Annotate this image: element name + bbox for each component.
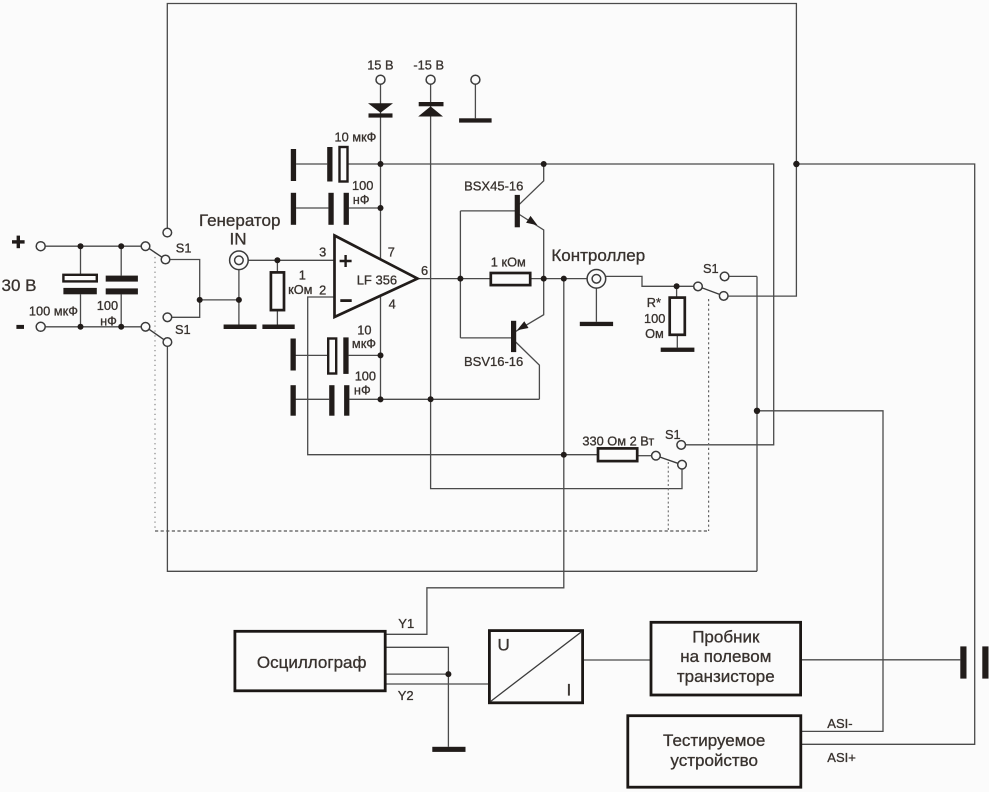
terminal + input [36,242,45,251]
transistor Q2 emitter arrow [517,321,529,330]
gang dashed horizontal [155,530,709,532]
capacitor C2 100nF plates [106,276,138,282]
wire branch from node at (796,164) to right edge down to ASI+ [796,164,974,744]
svg-text:S1: S1 [703,261,719,276]
wire lower S1 top throw to junction [172,300,200,317]
capacitor C4 100nF plates [328,193,333,225]
wire top supply rail y164 [348,164,774,445]
U/I diagonal [491,632,582,702]
wire resistor R1 top and bottom leads [276,260,278,324]
wire +15V vertical through pin 7 [380,84,382,259]
wire op-amp pin 4 vertical [380,296,382,400]
svg-text:S1: S1 [665,427,681,442]
op-amp minus symbol [340,299,351,302]
wire BSX45 emitter [519,215,543,279]
svg-text:Контроллер: Контроллер [551,246,645,265]
wire IN connector vertical to ground [238,270,240,325]
gang dotted line left S1 pair [154,252,156,531]
box Осциллограф [235,631,385,691]
wire junction to IN vertical [200,299,239,301]
resistor R4 330 Ом 2 Вт [598,448,637,461]
svg-text:нФ: нФ [353,192,370,207]
svg-text:100: 100 [97,298,118,313]
wire IN connector to op-amp pin 3 [248,259,334,261]
transistor Q1 BSX45-16 base bar [515,195,520,227]
svg-text:BSV16-16: BSV16-16 [464,354,523,369]
ground bar top [459,118,492,122]
wire -15V vertical [430,84,432,399]
svg-text:транзисторе: транзисторе [677,667,775,686]
svg-text:S1: S1 [175,322,191,337]
capacitor C1 bottom plate [63,288,96,294]
wire controller ground lead [595,288,597,322]
wire 330 switch top throw to rail A [686,444,774,446]
wire -15V down to 330 switch bottom throw [431,399,682,488]
wire scope middle leads [385,647,448,674]
svg-text:кОм: кОм [288,282,312,297]
wire R* leads [676,286,679,347]
capacitor C5 10uF plates [328,339,336,374]
svg-text:15 В: 15 В [367,58,393,73]
wire BSX45 base lead [460,210,515,212]
svg-text:100 мкФ: 100 мкФ [29,304,78,319]
wire vertical x757 ASI- net [756,276,758,571]
capacitor DUT plate right [982,646,988,678]
svg-text:-15 В: -15 В [413,58,444,73]
svg-text:Генератор: Генератор [199,211,280,230]
wire U/I to probe box [583,659,651,661]
switch S1 upper-left [141,228,171,263]
wire outer loop from upper S1 top throw to top border to right [167,4,796,297]
wire BSX45 collector [519,164,543,204]
wire cap C6 leads y399 [296,398,381,400]
switch S1 330 [652,441,687,469]
svg-text:10 мкФ: 10 мкФ [335,130,377,145]
svg-text:Осциллограф: Осциллограф [257,653,367,672]
connector Контроллер [587,270,606,289]
plus sign [12,236,25,249]
box Тестируемое устройство [628,716,801,788]
wire cap C2 verticals [120,246,122,327]
ground scope [432,747,465,752]
svg-text:7: 7 [388,244,395,259]
gang dashed vertical to right S1 [708,299,710,531]
wire op-amp output rail [418,278,588,280]
op-amp plus symbol [340,255,352,267]
wire probe box to capacitor [801,659,961,661]
resistor R1 1k input [271,272,284,310]
svg-text:нФ: нФ [100,314,117,329]
svg-text:30 В: 30 В [2,276,37,295]
svg-text:6: 6 [421,263,428,278]
wire cap C5 leads y355 [296,354,381,356]
wire scope Y2 lead [385,683,489,685]
diode VD2 [418,102,443,117]
terminal - input [36,322,45,331]
svg-text:2: 2 [319,283,326,298]
box U/I converter [489,631,582,703]
svg-text:Ом: Ом [645,326,664,341]
wire upper S1 bottom throw to junction [170,260,200,300]
switch S1 lower-left [141,313,172,346]
svg-text:IN: IN [230,230,247,249]
wire lower rail y399 to -15V and BSV collector [381,398,540,400]
ground bar C3 [291,149,296,181]
ground bar C6 [291,385,296,416]
svg-text:R*: R* [647,295,661,310]
wire BSV16 emitter [516,279,544,332]
svg-text:100: 100 [644,311,665,326]
capacitor C6 100nF plates [329,385,334,416]
wire right S1 top throw [729,275,757,277]
box Пробник на полевом транзисторе [651,622,801,695]
transistor Q2 BSV16-16 base bar [511,321,516,352]
svg-text:330 Ом 2 Вт: 330 Ом 2 Вт [582,433,654,448]
capacitor DUT plate left [960,646,966,678]
terminal -15V [426,75,435,84]
svg-text:на полевом: на полевом [680,647,771,666]
resistor R3 R* 100 Ом [670,298,685,335]
svg-text:Тестируемое: Тестируемое [663,731,765,750]
svg-text:нФ: нФ [354,382,371,397]
svg-text:устройство: устройство [670,751,758,770]
svg-text:Y1: Y1 [398,616,414,631]
wire BSV16 base lead [460,337,511,339]
wire cap C1 verticals [80,246,82,327]
wire branch to ASI- [757,411,883,732]
wire scope ground vertical [447,674,449,747]
wire BSV16 collector [516,342,540,399]
svg-text:BSX45-16: BSX45-16 [464,178,523,193]
svg-text:1: 1 [299,267,306,282]
wire op-amp pin 2 feedback down and across [308,297,598,455]
capacitor C1 100uF top plate [63,275,96,282]
svg-text:мкФ: мкФ [352,336,376,351]
svg-text:S1: S1 [176,240,192,255]
wire ground terminal vertical [474,84,476,118]
svg-text:ASI+: ASI+ [827,750,856,765]
terminal 15V [376,75,385,84]
gang dotted vertical to 330 S1 [667,462,669,531]
wire lower S1 bottom throw down and bottom return [167,347,757,572]
resistor R2 1k output [491,273,530,285]
connector IN [230,251,249,270]
ground Контроллер [580,322,613,326]
wire controller jog to R switch [605,276,694,286]
wire output sense down to Y1 [385,279,564,635]
wire 330 resistor to its switch pole [637,455,651,457]
svg-text:1 кОм: 1 кОм [491,254,526,269]
svg-text:3: 3 [319,244,326,259]
wire transistor base bus vertical [459,211,461,338]
svg-text:I: I [567,680,572,699]
capacitor C3 10uF plates [327,147,332,182]
ground IN [224,325,257,330]
wire plus input rail [45,245,141,247]
wire cap C4 leads y208 [296,207,380,209]
svg-text:4: 4 [389,296,396,311]
svg-text:Пробник: Пробник [692,628,760,647]
wire minus input rail [45,326,141,328]
transistor Q1 emitter arrow [526,216,537,225]
wire top cap C3 lead [296,163,327,165]
ground bar C5 [291,339,296,371]
svg-text:ASI-: ASI- [827,716,852,731]
svg-text:LF 356: LF 356 [357,272,397,287]
svg-text:U: U [498,636,510,655]
ground R* [661,348,695,352]
ground R1 [262,325,294,330]
svg-text:100: 100 [352,178,373,193]
switch S1 right [694,272,729,300]
minus sign [16,325,24,329]
diode VD1 [368,103,393,117]
terminal ground top [471,75,480,84]
ground bar C4 [291,193,296,225]
op-amp U1 LF356 [335,236,418,318]
svg-text:Y2: Y2 [398,688,414,703]
